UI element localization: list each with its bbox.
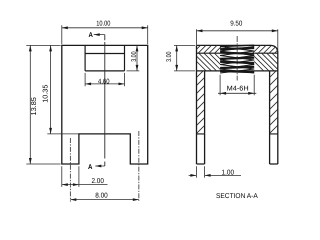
- svg-text:M4-6H: M4-6H: [227, 85, 249, 92]
- svg-text:13.85: 13.85: [31, 97, 38, 115]
- svg-text:1.00: 1.00: [222, 170, 235, 177]
- svg-text:SECTION A-A: SECTION A-A: [216, 193, 258, 200]
- svg-text:9.50: 9.50: [230, 21, 242, 28]
- svg-text:8.00: 8.00: [95, 192, 108, 199]
- svg-text:A: A: [89, 32, 93, 39]
- svg-text:2.00: 2.00: [91, 178, 104, 185]
- svg-text:A: A: [88, 164, 92, 171]
- svg-text:4.60: 4.60: [98, 78, 110, 85]
- svg-text:10.00: 10.00: [96, 20, 110, 27]
- svg-text:10.35: 10.35: [43, 85, 50, 103]
- svg-text:3.00: 3.00: [131, 51, 138, 61]
- svg-text:3.00: 3.00: [166, 51, 173, 61]
